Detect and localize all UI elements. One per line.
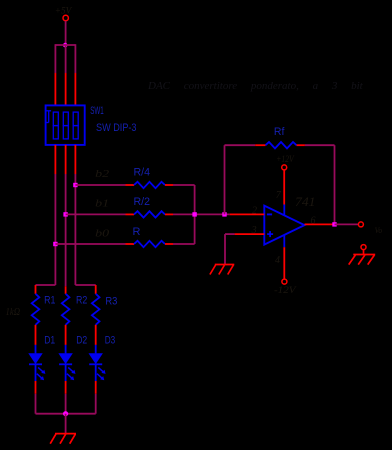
resistor R2 designator <box>76 294 87 306</box>
node b0 junction <box>53 242 57 246</box>
node junction top <box>63 43 68 48</box>
resistor R3 top lead <box>95 285 97 294</box>
svg-text:+5V: +5V <box>55 5 73 15</box>
pin number 4 <box>275 255 280 266</box>
wire right column to jog <box>75 174 95 285</box>
pin lead op-amp to -12V <box>283 247 285 279</box>
label b1 <box>95 197 109 209</box>
op-amp minus sign <box>267 213 272 215</box>
label b2 <box>95 168 110 180</box>
pin lead middle into SW1 <box>65 73 67 105</box>
resistor Rf designator <box>274 126 285 138</box>
node output junction <box>332 222 336 226</box>
LED D2 bottom lead <box>65 381 67 394</box>
label Vo <box>375 225 383 235</box>
svg-text:Vo: Vo <box>375 225 383 235</box>
switch SW1 body <box>46 105 85 144</box>
LED D1 designator <box>44 334 55 346</box>
resistor R/4 right lead <box>165 184 173 186</box>
node b2 junction <box>73 183 77 187</box>
resistor Rf left lead <box>255 144 265 146</box>
resistor R right lead <box>165 243 173 245</box>
resistor R <box>134 241 165 247</box>
svg-text:-12V: -12V <box>274 286 297 296</box>
switch SW1 slider 1 <box>53 112 58 139</box>
op-amp U1 triangle <box>264 206 304 245</box>
resistor R2 top lead <box>65 286 67 294</box>
wire non-inverting to ground <box>225 234 235 264</box>
resistor R3 bottom lead <box>95 325 97 345</box>
svg-text:b1: b1 <box>95 197 109 209</box>
switch SW1 slider 2 <box>63 112 68 139</box>
power -12V label <box>274 286 297 296</box>
label 1k <box>6 307 21 318</box>
resistor R1 top lead <box>35 285 37 294</box>
resistor R left lead <box>126 243 135 245</box>
op-amp power stub pin 7 <box>283 205 285 216</box>
power +5V terminal circle <box>63 15 68 20</box>
pin lead right into SW1 <box>74 73 76 105</box>
resistor R/2 designator <box>134 196 151 208</box>
pin number 6 <box>311 216 316 227</box>
power +5V label <box>55 5 73 15</box>
svg-text:741: 741 <box>295 195 316 209</box>
pin number 7 <box>276 190 282 201</box>
power +12V terminal circle <box>282 165 287 170</box>
wire middle column upper <box>65 45 67 73</box>
node bus junction <box>192 212 196 216</box>
LED D3 <box>89 345 106 381</box>
wire bottom bus <box>36 394 96 414</box>
resistor R2 bottom lead <box>65 325 67 345</box>
ground bottom <box>50 434 76 444</box>
wire feedback vertical left <box>224 145 226 214</box>
svg-text:R3: R3 <box>105 296 117 308</box>
power -12V terminal circle <box>282 279 287 284</box>
pin number 2 <box>252 205 257 216</box>
resistor R1 <box>32 294 40 325</box>
wire b0 row <box>55 243 125 245</box>
svg-text:D3: D3 <box>105 334 116 346</box>
node feedback junction <box>222 212 226 216</box>
power +12V label <box>276 154 295 164</box>
pin lead non-inverting input <box>235 233 265 235</box>
pin lead inverting input <box>230 213 264 215</box>
resistor R/4 left lead <box>126 184 135 186</box>
pin lead +12V to op-amp <box>283 170 285 204</box>
svg-text:4: 4 <box>275 255 280 266</box>
wire horizontal top distribution <box>55 44 75 46</box>
wire R/2 to summing node <box>173 213 230 215</box>
pin lead right below SW1 <box>74 145 76 174</box>
wire left column to b0 tap and jog <box>36 174 56 285</box>
wire middle column down <box>65 174 67 286</box>
resistor R1 bottom lead <box>35 325 37 345</box>
op-amp label 741 <box>295 195 316 209</box>
resistor R3 designator <box>105 296 117 308</box>
label b0 <box>95 227 110 239</box>
svg-text:R/4: R/4 <box>134 167 151 179</box>
LED D3 designator <box>105 334 116 346</box>
wire R/4 to bus <box>173 185 195 214</box>
svg-text:D1: D1 <box>44 334 55 346</box>
terminal circle Vo <box>358 222 363 227</box>
svg-text:R2: R2 <box>76 294 87 306</box>
pin number 3 <box>251 225 257 236</box>
resistor R1 designator <box>44 294 55 306</box>
resistor R designator <box>133 226 141 238</box>
svg-text:D2: D2 <box>76 334 87 346</box>
pin lead op-amp output <box>305 223 335 225</box>
op-amp power stub pin 4 <box>283 235 285 247</box>
wire output to terminal <box>335 223 359 225</box>
resistor R2 <box>62 294 70 325</box>
wire right column upper <box>74 44 76 73</box>
node bottom junction <box>63 411 68 416</box>
svg-text:R: R <box>133 226 141 238</box>
LED D2 designator <box>76 334 87 346</box>
switch SW1 slider 3 <box>73 112 78 139</box>
svg-text:b0: b0 <box>95 227 110 239</box>
svg-text:Rf: Rf <box>274 126 285 138</box>
wire left column upper <box>54 44 56 73</box>
wire junction to ground <box>65 414 67 434</box>
LED D2 <box>58 345 75 381</box>
resistor R/2 right lead <box>165 213 173 215</box>
ground below non-inverting input <box>210 265 234 275</box>
pin lead left below SW1 <box>54 145 56 174</box>
svg-text:7: 7 <box>276 190 282 201</box>
op-amp plus sign <box>267 231 273 237</box>
LED D3 bottom lead <box>95 381 97 394</box>
svg-text:SW1: SW1 <box>90 105 104 117</box>
ground reference right <box>349 250 376 265</box>
resistor R/4 designator <box>134 167 151 179</box>
switch SW1 pin-1 mark <box>46 111 51 123</box>
resistor R/4 <box>134 182 165 188</box>
switch SW1 designator <box>90 105 104 117</box>
svg-text:1kΩ: 1kΩ <box>6 307 21 318</box>
svg-text:R/2: R/2 <box>134 196 151 208</box>
wire +5V circle to junction <box>65 21 67 45</box>
wire R to bus <box>173 214 195 244</box>
wire b2 row <box>75 184 125 186</box>
svg-text:+12V: +12V <box>276 154 295 164</box>
wire Rf row left <box>225 144 256 146</box>
resistor Rf right lead <box>297 144 305 146</box>
svg-text:DAC convertitore ponderato, a: DAC convertitore ponderato, a 3 bit <box>147 80 364 92</box>
resistor R/2 left lead <box>126 213 135 215</box>
LED D1 <box>28 345 45 381</box>
svg-text:R1: R1 <box>44 294 55 306</box>
switch SW1 value label <box>96 122 137 134</box>
wire Rf to output <box>305 145 335 224</box>
svg-text:b2: b2 <box>95 168 110 180</box>
resistor Rf <box>266 142 297 148</box>
resistor R3 <box>92 294 100 325</box>
wire b1 row <box>66 213 126 215</box>
caption text <box>147 80 364 92</box>
svg-text:SW DIP-3: SW DIP-3 <box>96 122 137 134</box>
pin lead middle below SW1 <box>65 145 67 174</box>
pin lead left into SW1 <box>54 73 56 105</box>
resistor R/2 <box>134 211 165 217</box>
node b1 junction <box>63 212 67 216</box>
terminal circle reference ground <box>361 245 366 250</box>
LED D1 bottom lead <box>35 381 37 394</box>
